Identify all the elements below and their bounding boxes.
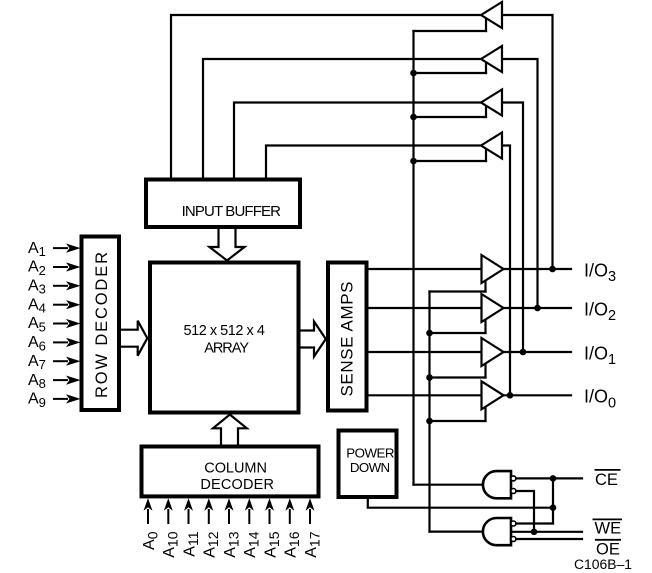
svg-text:INPUT BUFFER: INPUT BUFFER — [182, 203, 282, 220]
svg-text:CE: CE — [595, 471, 618, 489]
svg-text:OE: OE — [596, 541, 620, 559]
svg-text:A13: A13 — [222, 531, 241, 557]
svg-text:COLUMN: COLUMN — [204, 460, 267, 476]
svg-text:DECODER: DECODER — [200, 477, 274, 493]
svg-text:A0: A0 — [141, 531, 160, 550]
svg-text:POWER: POWER — [346, 446, 394, 461]
svg-text:A11: A11 — [181, 531, 200, 556]
svg-text:A12: A12 — [202, 531, 221, 557]
svg-text:C106B–1: C106B–1 — [574, 557, 632, 572]
svg-text:ARRAY: ARRAY — [204, 341, 249, 357]
svg-text:A10: A10 — [161, 531, 180, 557]
svg-text:A15: A15 — [262, 531, 281, 557]
svg-text:WE: WE — [595, 520, 622, 538]
svg-text:DOWN: DOWN — [350, 460, 390, 475]
svg-text:ROW DECODER: ROW DECODER — [93, 252, 111, 398]
svg-text:512 x 512 x 4: 512 x 512 x 4 — [184, 323, 265, 339]
svg-text:A17: A17 — [303, 531, 322, 557]
svg-text:SENSE AMPS: SENSE AMPS — [337, 282, 356, 397]
svg-text:A14: A14 — [242, 531, 261, 557]
svg-text:A16: A16 — [283, 531, 302, 557]
